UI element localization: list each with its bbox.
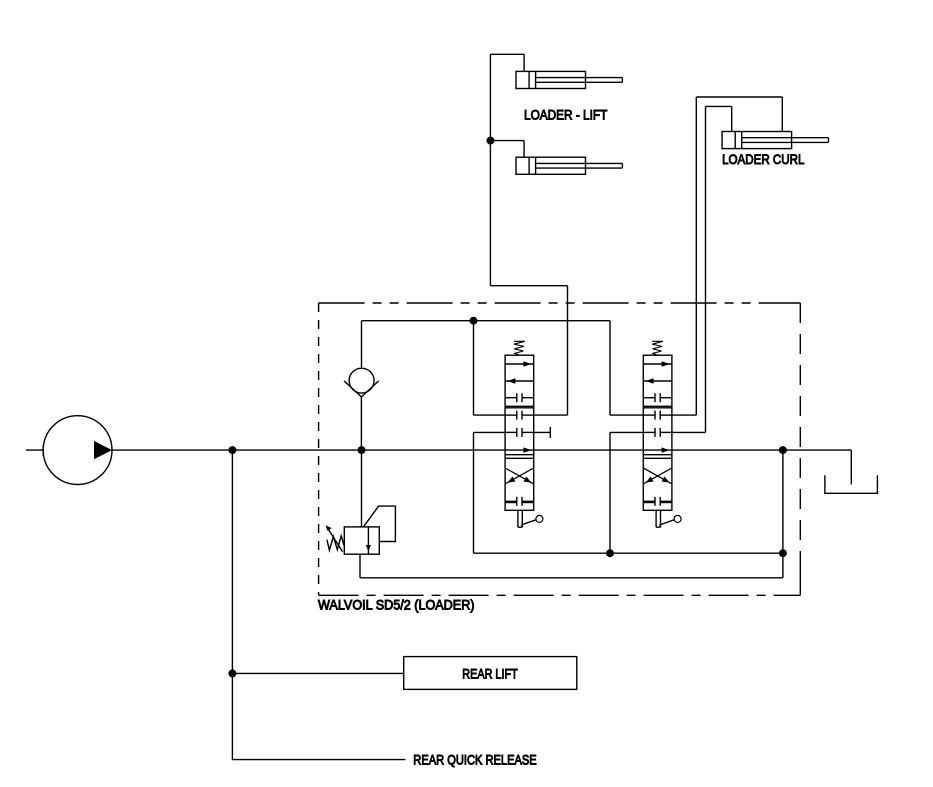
svg-text:LOADER - LIFT: LOADER - LIFT: [524, 107, 608, 123]
svg-text:REAR LIFT: REAR LIFT: [462, 666, 518, 682]
svg-text:REAR QUICK RELEASE: REAR QUICK RELEASE: [413, 752, 536, 768]
svg-text:WALVOIL SD5/2 (LOADER): WALVOIL SD5/2 (LOADER): [318, 597, 475, 613]
svg-text:LOADER CURL: LOADER CURL: [722, 151, 804, 167]
